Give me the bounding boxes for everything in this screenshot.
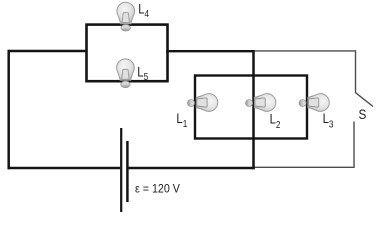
svg-text:L3: L3 (323, 111, 334, 130)
svg-text:L1: L1 (176, 111, 187, 129)
svg-text:L2: L2 (270, 111, 281, 130)
svg-text:S: S (359, 106, 367, 122)
svg-text:ε = 120 V: ε = 120 V (135, 183, 180, 196)
svg-text:L4: L4 (138, 1, 149, 19)
svg-text:L5: L5 (137, 65, 148, 83)
